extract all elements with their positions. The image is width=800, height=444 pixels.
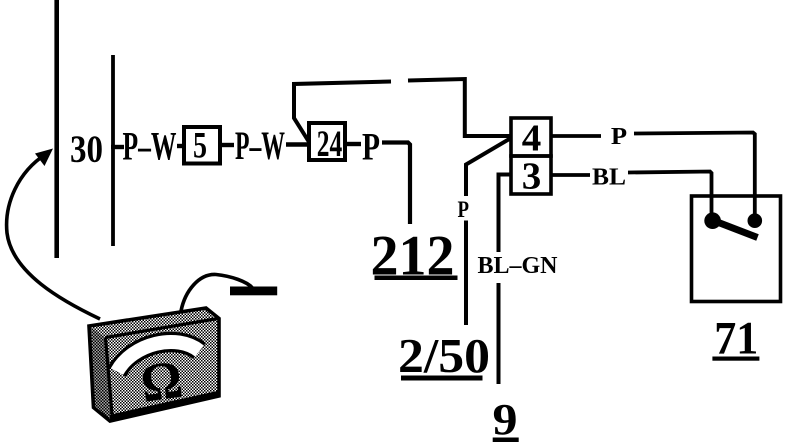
diagonal wire P branch to box 4 xyxy=(466,138,511,196)
meter silhouette with dither texture xyxy=(89,308,219,421)
connector box 4 xyxy=(511,118,551,156)
wire P-W to box 24 xyxy=(286,142,310,146)
meter scale band white xyxy=(117,342,200,372)
connector box 5 xyxy=(184,127,220,164)
underline 71 xyxy=(712,357,759,361)
connector box 3 xyxy=(511,156,551,194)
ohmmeter body xyxy=(89,308,219,421)
svg-text:P: P xyxy=(458,197,470,222)
underline 9 xyxy=(493,438,519,443)
meter side face shading xyxy=(89,326,112,421)
wire P to switch right contact xyxy=(634,133,755,215)
probe contact bar xyxy=(230,287,277,296)
underline 2/50 xyxy=(401,376,483,381)
wire BL to switch left contact xyxy=(628,172,712,215)
ohmmeter test lead left (curved arrow to bus 30) xyxy=(7,154,100,319)
connector box 24 xyxy=(309,123,345,160)
svg-text:9: 9 xyxy=(493,394,518,444)
svg-text:30: 30 xyxy=(70,127,103,171)
bus line 2 (second vertical rail) xyxy=(111,55,115,246)
arrowhead left lead xyxy=(35,149,53,167)
meter scale band outline xyxy=(117,342,200,372)
svg-text:BL–GN: BL–GN xyxy=(478,252,558,279)
svg-text:Ω: Ω xyxy=(137,349,186,414)
switch lever xyxy=(712,220,758,238)
meter bottom thick edge xyxy=(110,394,219,418)
svg-text:P: P xyxy=(611,123,627,150)
interrupted jumper wire top right part xyxy=(408,79,511,136)
svg-text:BL: BL xyxy=(592,163,626,190)
wire box 3 stub to BL-GN drop xyxy=(499,175,512,253)
wire bus2 to P-W xyxy=(111,145,124,149)
wire box 4 to P label xyxy=(551,134,601,138)
switch right contact dot xyxy=(748,213,763,228)
ohmmeter test lead right (curved arrow to probe bar) xyxy=(181,274,253,311)
wire P to corner down to 212 xyxy=(382,143,410,225)
switch left contact dot xyxy=(704,212,721,229)
wire P down to 2/50 xyxy=(464,221,468,326)
svg-text:4: 4 xyxy=(522,118,542,160)
svg-text:3: 3 xyxy=(522,156,542,198)
svg-text:P–W: P–W xyxy=(235,123,285,168)
wire box 24 to P xyxy=(347,142,361,146)
interrupted jumper wire top left part xyxy=(294,82,391,143)
underline 212 xyxy=(375,276,458,281)
meter front left edge xyxy=(106,338,113,415)
svg-text:P–W: P–W xyxy=(123,124,177,169)
switch 71 box xyxy=(692,196,781,302)
wire box 5 to P-W xyxy=(222,143,234,147)
bus line 30 (left vertical rail) xyxy=(54,0,59,258)
wire P-W to box 5 xyxy=(177,144,184,148)
svg-text:2/50: 2/50 xyxy=(398,328,490,383)
meter front top edge xyxy=(106,319,219,338)
wire BL-GN down to 9 xyxy=(497,283,501,384)
wire box 3 to BL label xyxy=(551,173,590,177)
svg-text:24: 24 xyxy=(317,123,343,164)
svg-text:5: 5 xyxy=(193,126,207,167)
svg-text:P: P xyxy=(362,126,380,169)
